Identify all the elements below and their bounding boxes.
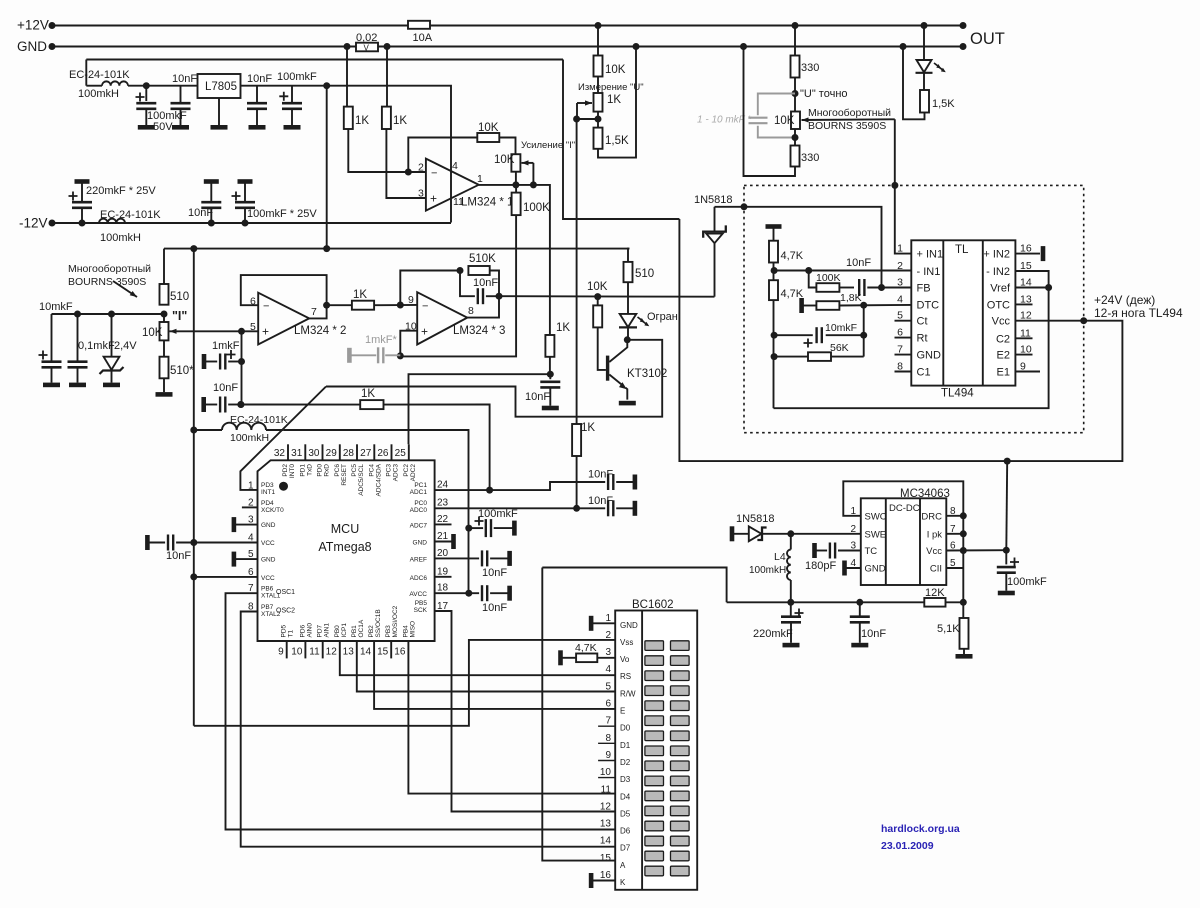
MCU ATmega8	[258, 460, 435, 641]
svg-text:BC1602: BC1602	[632, 599, 674, 611]
svg-text:3: 3	[418, 188, 424, 200]
svg-text:27: 27	[360, 448, 372, 459]
svg-text:9: 9	[408, 294, 414, 306]
svg-text:OTC: OTC	[987, 299, 1010, 311]
svg-text:+: +	[430, 192, 437, 206]
svg-text:L4: L4	[774, 551, 786, 563]
svg-text:10nF: 10nF	[482, 567, 507, 579]
svg-text:2: 2	[897, 260, 903, 272]
svg-text:100mkH: 100mkH	[100, 232, 141, 244]
svg-text:C1: C1	[917, 367, 931, 379]
svg-text:28: 28	[343, 448, 355, 459]
svg-text:+: +	[421, 325, 428, 339]
svg-text:19: 19	[437, 566, 449, 577]
svg-text:ADC1: ADC1	[410, 489, 428, 496]
svg-text:PC6: PC6	[334, 464, 341, 477]
wire LED to collector	[627, 327, 629, 339]
svg-text:I pk: I pk	[927, 529, 943, 540]
svg-text:C2: C2	[996, 333, 1010, 345]
svg-text:10nF: 10nF	[172, 73, 197, 85]
wire pin24 10nF	[490, 482, 606, 490]
wire pin23 10nF	[577, 507, 606, 509]
svg-text:D6: D6	[620, 827, 631, 836]
svg-text:A: A	[620, 861, 626, 870]
svg-text:10mkF: 10mkF	[39, 301, 73, 313]
svg-text:PD6: PD6	[299, 624, 306, 637]
svg-text:1N5818: 1N5818	[694, 194, 733, 206]
svg-text:Vo: Vo	[620, 655, 630, 664]
svg-text:ADC5/SCL: ADC5/SCL	[358, 464, 365, 496]
svg-text:PD2: PD2	[282, 464, 289, 477]
wire XTAL2 pin8 to D7	[241, 612, 616, 847]
svg-text:18: 18	[437, 583, 449, 594]
svg-text:2,4V: 2,4V	[114, 340, 137, 352]
C2 stub	[1015, 337, 1032, 339]
dashed box TL494 module	[744, 185, 1084, 432]
capacitor 10nF -12V	[208, 220, 215, 227]
svg-text:E2: E2	[997, 350, 1010, 362]
svg-text:PB2: PB2	[368, 625, 375, 638]
resistor 1,5K Izmerenie	[595, 116, 602, 123]
feedback 100K	[805, 267, 812, 274]
svg-text:1mkF*: 1mkF*	[365, 334, 398, 346]
svg-text:7: 7	[311, 306, 317, 318]
diagonal wire INT1	[240, 387, 326, 490]
pin 10 PD6 AIN0 bottom	[304, 641, 306, 658]
pin 20 AREF	[435, 557, 480, 559]
svg-text:−: −	[431, 168, 437, 180]
svg-text:ADC7: ADC7	[410, 523, 428, 530]
wire 1K to pin2	[348, 129, 426, 172]
svg-text:4: 4	[850, 558, 856, 569]
pin1 marker dot	[279, 482, 288, 491]
svg-text:Ct: Ct	[917, 316, 928, 328]
svg-text:RxD: RxD	[324, 464, 331, 477]
wire CII	[946, 567, 963, 569]
svg-text:V: V	[364, 44, 370, 53]
LCD segment cells	[645, 641, 664, 651]
capacitor 10nF AVCC pin18	[481, 585, 483, 601]
svg-text:180pF: 180pF	[805, 560, 836, 572]
resistor 330 upper	[792, 22, 799, 29]
svg-text:14: 14	[360, 647, 372, 658]
svg-text:10K: 10K	[142, 327, 163, 339]
resistor 1K RC out	[546, 334, 550, 336]
resistor 1K second	[384, 43, 391, 50]
svg-text:Vcc: Vcc	[992, 316, 1011, 328]
svg-text:PD0: PD0	[317, 464, 324, 477]
trimmer 10K BOURNS 3590S	[791, 112, 800, 130]
svg-text:PD5: PD5	[281, 624, 288, 637]
svg-text:2: 2	[248, 498, 254, 509]
svg-text:PD1: PD1	[299, 464, 306, 477]
svg-text:AREF: AREF	[410, 557, 427, 564]
svg-text:- IN1: - IN1	[917, 266, 941, 278]
svg-text:PC2: PC2	[403, 464, 410, 477]
Vref pin wire	[1015, 287, 1048, 289]
resistor 4,7K contrast	[558, 650, 563, 665]
svg-text:PD3: PD3	[261, 482, 274, 489]
wire Vcc MC34063	[946, 549, 1006, 551]
Vcc pin 12 wire	[1080, 317, 1087, 324]
svg-text:- IN2: - IN2	[986, 266, 1010, 278]
wire DTC network riser	[863, 305, 865, 356]
resistor 4,7K lower	[769, 280, 778, 300]
svg-text:220mkF * 25V: 220mkF * 25V	[86, 185, 156, 197]
svg-text:4: 4	[897, 293, 903, 305]
svg-text:1,5K: 1,5K	[932, 98, 955, 110]
pin 23 PC0 ADC0	[435, 507, 577, 509]
svg-text:+: +	[262, 325, 269, 339]
svg-text:ADC3: ADC3	[393, 464, 400, 482]
svg-text:510: 510	[635, 268, 654, 280]
capacitor 0,1mkF setpoint	[74, 311, 81, 318]
svg-text:13: 13	[343, 647, 355, 658]
capacitor 10nF AREF	[481, 550, 483, 566]
wire wiper to TL494 +IN1	[802, 118, 895, 121]
pin 11 PD7 AIN1 bottom	[322, 641, 324, 658]
svg-text:PB4: PB4	[402, 625, 409, 638]
svg-text:-12V: -12V	[19, 216, 48, 231]
resistor 4,7K upper	[769, 241, 778, 263]
wire VCC pin6 MCU	[190, 573, 197, 580]
svg-text:17: 17	[437, 601, 449, 612]
svg-text:Усиление "I": Усиление "I"	[521, 140, 575, 151]
svg-text:E1: E1	[997, 367, 1010, 379]
wire pin17 SCK to D5	[435, 611, 616, 812]
svg-text:DTC: DTC	[917, 299, 940, 311]
wire GND link MCU to LCD Vss	[194, 640, 615, 726]
svg-text:+ IN2: + IN2	[983, 249, 1010, 261]
svg-text:Vss: Vss	[620, 638, 633, 647]
pin 2 PD4	[242, 506, 258, 508]
wire -IN1 to TL494 pin2	[774, 270, 911, 272]
svg-text:10nF: 10nF	[861, 628, 886, 640]
svg-text:510*: 510*	[170, 365, 194, 377]
svg-text:INT0: INT0	[289, 464, 296, 478]
svg-text:1: 1	[897, 243, 903, 255]
svg-text:0,02: 0,02	[356, 32, 377, 44]
svg-text:D7: D7	[620, 844, 631, 853]
wire setpoint caps	[52, 313, 165, 315]
svg-text:5,1K: 5,1K	[937, 623, 960, 635]
svg-text:10K: 10K	[774, 115, 795, 127]
svg-text:100mkF * 25V: 100mkF * 25V	[247, 208, 317, 220]
resistor 1,5K LED	[923, 73, 925, 90]
svg-text:LM324 * 3: LM324 * 3	[453, 325, 505, 337]
pin 26 PC3 ADC3 top	[391, 444, 393, 460]
svg-text:GND: GND	[620, 621, 638, 630]
IC TL494	[911, 240, 1015, 385]
svg-text:8: 8	[605, 733, 611, 744]
svg-text:SCK: SCK	[414, 607, 428, 614]
svg-text:TL: TL	[955, 244, 969, 256]
svg-text:1,8K: 1,8K	[840, 292, 862, 304]
svg-text:10nF: 10nF	[213, 382, 238, 394]
svg-text:10K: 10K	[494, 154, 515, 166]
E1 stub	[1015, 371, 1040, 373]
LED power indicator	[921, 22, 928, 29]
svg-text:GND: GND	[261, 557, 276, 564]
svg-text:T1: T1	[288, 630, 295, 638]
svg-text:GND: GND	[261, 522, 276, 529]
svg-text:32: 32	[274, 448, 286, 459]
svg-text:5: 5	[248, 549, 254, 560]
svg-text:AIN1: AIN1	[324, 623, 331, 638]
IC MC34063	[861, 498, 947, 585]
wire LED to GND rail	[903, 47, 925, 120]
svg-text:AIN0: AIN0	[306, 623, 313, 638]
pin 18 AVCC	[435, 592, 480, 594]
svg-text:PB1: PB1	[351, 625, 358, 638]
svg-text:4: 4	[605, 664, 611, 675]
svg-text:D0: D0	[620, 724, 631, 733]
svg-text:50V: 50V	[153, 121, 173, 133]
svg-text:29: 29	[326, 448, 338, 459]
svg-text:7: 7	[605, 716, 611, 727]
svg-text:14: 14	[600, 836, 612, 847]
net +5V rail	[164, 248, 629, 250]
node U tochno	[792, 90, 799, 97]
svg-text:INT1: INT1	[261, 489, 275, 496]
resistor 1K ADC0	[572, 424, 581, 456]
svg-text:Rt: Rt	[917, 333, 928, 345]
LCD BC1602	[615, 611, 697, 890]
svg-text:1: 1	[477, 173, 483, 185]
svg-text:10nF: 10nF	[188, 207, 213, 219]
svg-text:PC4: PC4	[368, 464, 375, 477]
pin 32 PD2 INT0 top	[287, 444, 289, 460]
svg-text:TxD: TxD	[306, 464, 313, 476]
svg-text:10nF: 10nF	[473, 277, 498, 289]
ground pin L7805	[218, 98, 220, 125]
pin 24 PC1 ADC1	[435, 489, 490, 491]
resistor 10K Izmerenie U	[595, 22, 602, 29]
svg-text:8: 8	[468, 305, 474, 317]
svg-text:24: 24	[437, 480, 449, 491]
svg-text:9: 9	[278, 647, 284, 658]
wire +5V to MCU VCC	[193, 249, 195, 726]
svg-text:510: 510	[170, 291, 189, 303]
op-amp LM324 * 2	[258, 293, 309, 345]
wire Vref return	[774, 288, 1049, 409]
svg-text:PB6: PB6	[261, 586, 274, 593]
svg-text:GND: GND	[865, 564, 886, 575]
wire ADC filter riser	[284, 430, 469, 593]
svg-text:4,7K: 4,7K	[575, 642, 597, 654]
Vref T-bar	[766, 224, 782, 229]
resistor 1K ADC1	[360, 400, 383, 409]
shunt resistor 0,02 V	[356, 43, 378, 52]
terminal OUT +	[960, 22, 967, 29]
ground LCD pin16 K	[591, 880, 615, 882]
svg-text:ADC6: ADC6	[410, 575, 428, 582]
svg-text:LM324 * 1: LM324 * 1	[461, 197, 513, 209]
svg-text:D2: D2	[620, 758, 631, 767]
svg-text:VCC: VCC	[261, 540, 275, 547]
ground pin5 MCU	[232, 552, 237, 567]
svg-text:PC0: PC0	[414, 500, 427, 507]
inductor L4 100mkH	[787, 530, 794, 537]
svg-text:330: 330	[801, 62, 819, 74]
svg-text:1,5K: 1,5K	[605, 135, 629, 147]
svg-text:11: 11	[309, 647, 320, 658]
resistor 1K from GND rail	[344, 43, 351, 50]
svg-text:+ IN1: + IN1	[917, 249, 944, 261]
svg-text:10: 10	[600, 767, 612, 778]
svg-text:R/W: R/W	[620, 689, 636, 698]
wire 330 to GND rail	[740, 43, 747, 50]
svg-text:10K: 10K	[587, 281, 608, 293]
svg-text:ADC4/SDA: ADC4/SDA	[375, 463, 382, 496]
wire RC node	[549, 357, 551, 374]
capacitor 220mkF 25V	[79, 220, 86, 227]
capacitor 100mkF 50V	[143, 82, 150, 89]
svg-text:100mkF: 100mkF	[478, 508, 518, 520]
terminal OUT -	[960, 43, 967, 50]
capacitor 10nF RC	[549, 374, 551, 379]
wire LM324*1 output	[479, 185, 550, 335]
svg-text:RS: RS	[620, 672, 631, 681]
wire divider loop	[633, 43, 640, 50]
svg-text:BOURNS 3590S: BOURNS 3590S	[68, 276, 146, 288]
svg-text:12-я нога TL494: 12-я нога TL494	[1094, 306, 1183, 320]
svg-text:D4: D4	[620, 792, 631, 801]
svg-text:D3: D3	[620, 775, 631, 784]
capacitor 180pF	[812, 543, 817, 558]
svg-text:Многооборотный: Многооборотный	[808, 107, 891, 119]
svg-text:3: 3	[605, 647, 611, 658]
svg-text:GND: GND	[413, 540, 428, 547]
svg-text:10A: 10A	[413, 32, 433, 44]
wire pin16 MISO to D4	[408, 641, 615, 794]
svg-text:OC1A: OC1A	[358, 619, 365, 637]
svg-text:4: 4	[248, 533, 254, 544]
wire -IN2 to Vref	[1015, 271, 1048, 288]
wire pin14 to E	[374, 641, 615, 709]
trimmer 1K Izmerenie	[597, 77, 599, 94]
svg-text:12K: 12K	[925, 587, 945, 599]
svg-text:26: 26	[377, 448, 389, 459]
resistor 330 lower	[792, 134, 799, 141]
svg-text:100mkH: 100mkH	[78, 88, 119, 100]
pin 21 GND	[435, 541, 454, 543]
svg-text:TL494: TL494	[941, 388, 974, 400]
pin 19 ADC6	[435, 576, 452, 578]
feedback loop LM324*2	[241, 275, 327, 318]
svg-text:Огран.: Огран.	[647, 311, 681, 323]
pin 29 PC6 RESET top	[339, 444, 341, 460]
svg-text:10K: 10K	[605, 64, 626, 76]
wire +12V input box	[86, 59, 563, 61]
svg-text:AVCC: AVCC	[409, 591, 427, 598]
pin 22 ADC7	[435, 523, 452, 525]
fuse 10A	[408, 21, 430, 29]
svg-text:10nF: 10nF	[247, 73, 272, 85]
svg-text:Многооборотный: Многооборотный	[68, 263, 151, 275]
svg-text:10K: 10K	[478, 122, 499, 134]
svg-text:13: 13	[600, 819, 612, 830]
svg-text:510K: 510K	[469, 253, 496, 265]
wire SWE	[791, 533, 861, 535]
svg-text:3: 3	[897, 277, 903, 289]
wire ADC1 line	[237, 401, 244, 408]
svg-text:1K: 1K	[556, 322, 570, 334]
svg-text:ATmega8: ATmega8	[318, 540, 371, 554]
svg-text:4: 4	[452, 160, 458, 172]
svg-text:4,7K: 4,7K	[781, 250, 804, 262]
svg-text:16: 16	[600, 870, 612, 881]
svg-text:100mkH: 100mkH	[749, 565, 786, 576]
svg-text:OSC1: OSC1	[276, 589, 295, 596]
svg-text:220mkF: 220mkF	[753, 628, 793, 640]
svg-text:CII: CII	[930, 564, 942, 575]
svg-text:25: 25	[395, 448, 407, 459]
svg-text:100mkF: 100mkF	[277, 71, 317, 83]
svg-text:100mkH: 100mkH	[230, 432, 269, 444]
svg-text:+24V (деж): +24V (деж)	[1094, 293, 1155, 307]
node -IN1 divider	[771, 267, 778, 274]
svg-text:+12V: +12V	[17, 18, 49, 33]
svg-text:23: 23	[437, 498, 449, 509]
svg-text:LM324 * 2: LM324 * 2	[294, 325, 346, 337]
svg-text:10nF: 10nF	[588, 495, 613, 507]
svg-text:12: 12	[326, 647, 338, 658]
wire I pk	[946, 533, 963, 535]
wire pin5 net LM324*2	[238, 328, 245, 335]
wire XTAL1 pin7 to D6	[226, 593, 616, 829]
svg-text:PB7: PB7	[261, 604, 274, 611]
svg-text:1K: 1K	[607, 94, 621, 106]
resistor 100K	[512, 193, 521, 216]
svg-text:1N5818: 1N5818	[736, 513, 775, 525]
svg-text:PC3: PC3	[386, 464, 393, 477]
ground LCD pin1	[591, 622, 615, 624]
svg-text:TC: TC	[865, 546, 878, 557]
svg-text:8: 8	[248, 602, 254, 613]
svg-text:5: 5	[250, 321, 256, 333]
svg-text:15: 15	[600, 853, 612, 864]
pin 9 PD5 T1 bottom	[286, 641, 288, 658]
svg-text:MCU: MCU	[331, 522, 359, 536]
node I setpoint	[161, 311, 168, 318]
svg-text:FB: FB	[917, 283, 931, 295]
svg-text:SWC: SWC	[865, 511, 887, 522]
svg-text:RESET: RESET	[341, 464, 348, 486]
svg-text:10mkF: 10mkF	[825, 322, 857, 334]
svg-text:12: 12	[1020, 310, 1032, 322]
svg-text:ADC2: ADC2	[410, 464, 417, 482]
svg-text:12: 12	[600, 801, 612, 812]
svg-text:PD4: PD4	[261, 500, 274, 507]
wire +5V line to LM324 power	[323, 82, 330, 89]
resistor 510 setpoint	[163, 249, 165, 284]
OTC stub	[1015, 303, 1032, 305]
regulator L7805	[181, 85, 198, 87]
svg-text:10nF: 10nF	[482, 602, 507, 614]
svg-text:DRC: DRC	[921, 511, 942, 522]
svg-text:10nF: 10nF	[588, 469, 613, 481]
svg-text:1K: 1K	[393, 115, 407, 127]
svg-text:10nF: 10nF	[846, 257, 871, 269]
svg-text:1: 1	[605, 613, 611, 624]
svg-text:1K: 1K	[361, 388, 375, 400]
svg-text:22: 22	[437, 514, 449, 525]
svg-text:MC34063: MC34063	[900, 488, 950, 500]
LED Ogran	[627, 282, 629, 314]
svg-text:PC5: PC5	[351, 464, 358, 477]
wire backlight A	[542, 568, 615, 861]
